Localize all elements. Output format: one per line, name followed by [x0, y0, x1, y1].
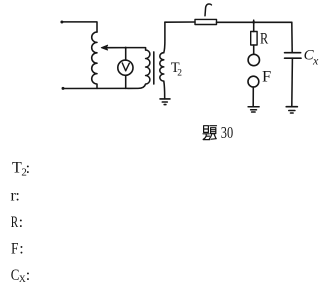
svg-text::: : — [26, 267, 30, 284]
wire wiper to primary — [106, 48, 146, 50]
svg-text:F: F — [11, 241, 19, 258]
wire secondary top lead — [164, 22, 165, 53]
transformer T2 secondary winding — [160, 53, 164, 81]
svg-text:F: F — [262, 69, 271, 86]
svg-text:2: 2 — [177, 69, 182, 79]
ground under T2 — [160, 99, 170, 105]
node input top terminal — [60, 21, 63, 24]
voltmeter V glyph — [122, 63, 129, 71]
wire secondary bottom lead — [163, 81, 166, 99]
ground under Cx — [286, 107, 297, 113]
wire Cx bottom lead — [291, 58, 294, 106]
wire F bottom lead — [252, 87, 254, 107]
resistor r body — [195, 19, 217, 24]
node input bottom terminal — [62, 87, 65, 90]
wire top rail right of r — [217, 21, 292, 23]
svg-text:R: R — [11, 214, 19, 231]
resistor R body — [251, 32, 257, 46]
svg-text::: : — [26, 160, 30, 177]
label Cx in schematic — [304, 48, 319, 68]
spark gap F lower ball — [248, 76, 259, 87]
wire Cx top lead — [291, 22, 293, 52]
label list T2 — [12, 159, 30, 178]
spark gap F upper ball — [248, 54, 259, 65]
svg-text:x: x — [312, 54, 319, 68]
wire bottom rail — [63, 85, 145, 89]
svg-text:30: 30 — [221, 123, 233, 142]
wire voltmeter top lead — [125, 48, 127, 61]
autotransformer variac winding — [92, 32, 97, 88]
svg-text::: : — [19, 241, 23, 258]
wire R top lead — [253, 20, 255, 31]
wire top-left input — [62, 22, 97, 32]
transformer T2 core — [153, 52, 155, 84]
svg-text:R: R — [260, 31, 268, 48]
label r (gamma) — [205, 4, 211, 16]
label list Cx — [11, 267, 31, 285]
caption character 題 — [203, 126, 217, 140]
transformer T2 primary winding — [146, 50, 150, 84]
label T2 in schematic — [171, 60, 182, 78]
svg-text::: : — [15, 188, 19, 205]
wire top rail left of r — [165, 21, 195, 23]
capacitor Cx bottom plate — [285, 57, 301, 59]
node wiper-voltmeter junction — [125, 47, 127, 49]
wiper arrow of variac — [101, 45, 107, 50]
node junction R branch — [252, 21, 255, 24]
wire R to spark gap — [253, 45, 255, 54]
wire voltmeter bottom lead — [125, 75, 127, 88]
voltmeter V1 — [118, 60, 133, 75]
capacitor Cx top plate — [285, 52, 301, 54]
svg-text::: : — [19, 214, 23, 231]
ground under F — [248, 107, 259, 112]
